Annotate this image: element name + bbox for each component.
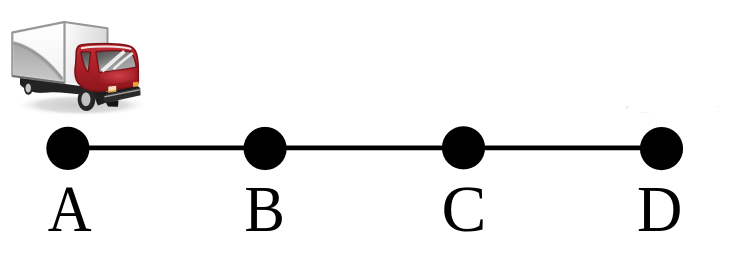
truck front mud guard [94,91,104,106]
truck windshield [96,51,137,73]
truck box bottom border [13,76,65,83]
truck box left face [12,22,64,83]
node B [244,127,287,170]
truck box reflection swoosh [13,42,63,82]
faint artifact marks [626,106,719,113]
truck cab body [75,44,138,92]
wire: line A-D [68,145,661,150]
truck icon [12,22,149,116]
bumper lower lip [106,100,119,107]
truck left headlight [108,86,116,93]
truck chassis [20,78,106,97]
swoosh boundary shading [13,42,63,79]
box right face borders [65,22,108,86]
cab front panel sheen [100,69,136,86]
node A [46,127,89,170]
node C [442,126,485,169]
truck box right face [65,22,108,86]
node D [640,127,683,170]
truck bumper [103,88,140,103]
windshield streaks [102,52,133,72]
bumper highlight [105,90,140,97]
svg-text:A: A [48,172,92,246]
under-cab shadow wedge [96,86,140,95]
truck rear wheel [24,82,33,95]
truck right headlight [133,82,138,87]
svg-text:C: C [442,174,487,246]
truck cab roof highlight [82,46,131,48]
truck shadow [15,94,149,116]
truck front wheel [78,88,96,111]
svg-text:D: D [637,173,682,246]
svg-text:B: B [244,172,284,246]
truck side window [81,52,91,73]
